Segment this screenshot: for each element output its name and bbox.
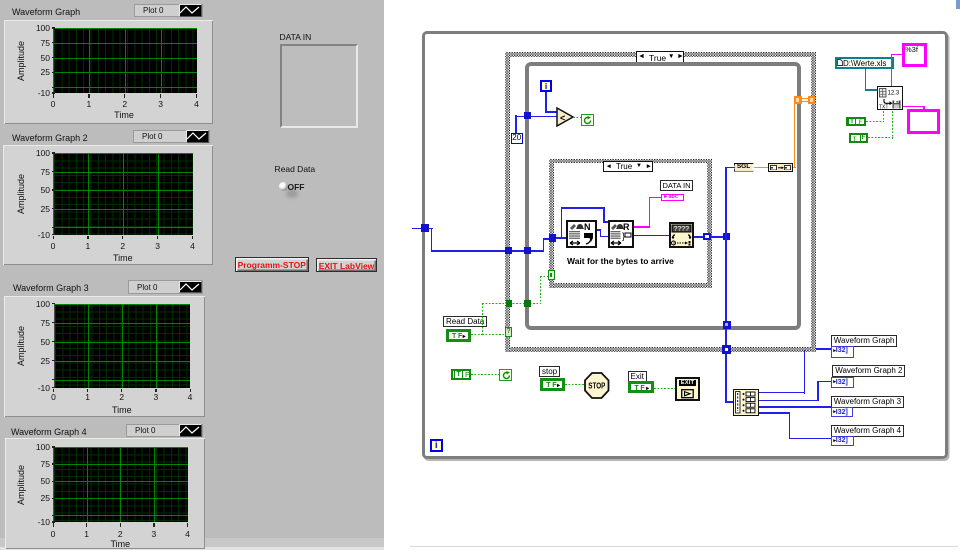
wire from 20 constant xyxy=(515,116,517,133)
numeric constant 20 xyxy=(511,133,524,145)
waveform graph 1 widget xyxy=(4,20,213,124)
front panel background xyxy=(0,0,384,550)
wire xyxy=(634,235,669,237)
wire comparator to continue terminal xyxy=(573,117,581,118)
orange wire up xyxy=(794,103,796,168)
boolean wire xyxy=(866,121,884,122)
DATA IN terminal label xyxy=(660,180,693,191)
wire junction xyxy=(723,233,730,240)
wire xyxy=(543,238,545,252)
wire to Waveform Graph terminal xyxy=(816,348,831,350)
path constant D:\Werte.xls xyxy=(835,57,895,69)
wire xyxy=(759,400,819,402)
orange wire xyxy=(802,101,809,102)
case selector True (outer case) xyxy=(636,51,685,64)
wire xyxy=(649,197,662,198)
svg-text:TXT: TXT xyxy=(879,104,888,109)
wire xyxy=(431,250,507,252)
Waveform Graph 3 terminal label xyxy=(831,396,904,408)
string wire xyxy=(903,106,925,107)
wire xyxy=(603,221,609,223)
tunnel on inner while border xyxy=(524,247,531,254)
svg-text:12.3: 12.3 xyxy=(887,90,899,96)
waveform graph 2 widget xyxy=(3,145,213,266)
VI icon: VISA Read xyxy=(608,220,634,249)
tunnel on while bottom border xyxy=(723,321,731,329)
outer while loop xyxy=(422,31,949,460)
boolean wire xyxy=(540,276,541,303)
wire up-over xyxy=(561,207,563,238)
green tunnel on case border xyxy=(506,300,513,307)
boolean wire xyxy=(565,384,585,385)
boolean wire to case selector xyxy=(482,334,506,335)
case selector True (inner case) xyxy=(603,161,653,173)
waveform graph 3 widget xyxy=(4,296,205,418)
waveform graph 4 widget xyxy=(5,438,205,549)
wire to SGL xyxy=(727,167,735,169)
inner loop iteration terminal i xyxy=(540,80,552,92)
orange tunnel on while border xyxy=(794,96,802,104)
Waveform Graph 2 I32 terminal xyxy=(831,377,854,388)
format wire down xyxy=(891,54,892,87)
array conversion node xyxy=(768,163,793,172)
Read Data boolean terminal xyxy=(446,329,471,342)
wire to Waveform Graph 2 terminal xyxy=(817,381,831,383)
wire xyxy=(431,228,433,252)
DATA IN string indicator label xyxy=(280,32,312,42)
wire xyxy=(817,381,819,402)
window fragment top-right xyxy=(956,0,960,9)
wire xyxy=(694,236,704,238)
Waveform Graph 3 I32 terminal xyxy=(831,407,854,417)
svg-text:N: N xyxy=(584,222,591,232)
svg-text:????: ???? xyxy=(673,226,689,233)
DATA IN string indicator box xyxy=(280,44,358,128)
wire xyxy=(794,103,796,105)
case selector tunnel ? xyxy=(505,327,512,337)
wire xyxy=(649,197,650,228)
svg-text:<: < xyxy=(560,113,565,123)
Index Array node xyxy=(733,389,759,416)
Waveform Graph 4 terminal label xyxy=(831,425,904,437)
stop terminal label xyxy=(539,366,560,377)
string indicator (unlabeled pink box) xyxy=(907,109,940,135)
wire xyxy=(531,250,544,252)
wire xyxy=(711,236,727,238)
wire xyxy=(600,236,609,238)
case structure True (outer) xyxy=(505,52,816,57)
svg-text:STOP: STOP xyxy=(588,382,606,391)
stop boolean terminal xyxy=(540,378,565,391)
boolean wire xyxy=(654,388,676,389)
tunnel on outer loop border xyxy=(421,224,429,232)
Waveform Graph terminal label xyxy=(831,335,898,347)
boolean constant FALSE xyxy=(849,133,869,143)
boolean wire xyxy=(471,334,483,335)
Read Data slide switch xyxy=(286,189,298,198)
wire xyxy=(543,238,550,240)
wire xyxy=(515,115,517,117)
wire into index array xyxy=(725,401,733,403)
wire xyxy=(759,392,806,394)
Read Data switch label xyxy=(275,164,316,174)
string wire xyxy=(923,106,924,110)
tunnel out of inner case xyxy=(703,233,711,241)
inner while loop xyxy=(525,62,802,331)
boolean wire xyxy=(471,374,500,375)
Waveform Graph 4 I32 terminal xyxy=(831,436,854,446)
tunnel on case bottom border xyxy=(722,345,731,354)
To SGL conversion bubble xyxy=(734,163,754,172)
green tunnel on while border xyxy=(524,300,531,307)
format wire xyxy=(891,54,902,55)
boolean constant xyxy=(451,369,471,380)
boolean wire xyxy=(868,137,893,138)
wire xyxy=(545,111,557,113)
VI icon: VISA Bytes at Serial Port xyxy=(566,220,597,249)
Read Data terminal label xyxy=(443,316,487,327)
orange wire xyxy=(793,167,796,168)
Exit terminal label xyxy=(628,371,647,382)
wire xyxy=(804,350,806,394)
tunnel 20 through while border xyxy=(524,112,531,119)
wire xyxy=(649,197,650,198)
wire xyxy=(603,207,605,222)
string constant %3f xyxy=(902,43,928,67)
boolean wire xyxy=(892,111,893,139)
path wire down xyxy=(865,69,867,91)
path wire to Write VI xyxy=(865,89,878,91)
wire xyxy=(600,229,602,237)
wire xyxy=(512,250,525,252)
wire to Waveform Graph 3 terminal xyxy=(759,406,831,408)
wire from i xyxy=(545,92,547,113)
VI icon: Write To Spreadsheet File xyxy=(877,86,903,110)
continue-if-true terminal xyxy=(499,369,512,381)
boolean constant TRUE xyxy=(846,117,866,126)
DATA IN string indicator terminal abc xyxy=(661,194,684,202)
wire into outer loop xyxy=(412,228,422,230)
wire to Waveform Graph 4 terminal xyxy=(789,438,831,440)
Exit boolean terminal xyxy=(628,381,654,393)
boolean wire xyxy=(883,111,884,123)
Waveform Graph I32 terminal xyxy=(831,346,854,358)
boolean wire xyxy=(540,276,549,277)
continue-if-true terminal (inner while) xyxy=(581,114,594,127)
tunnel on inner case border xyxy=(549,234,556,242)
wire xyxy=(759,412,791,414)
STOP sign icon xyxy=(584,372,610,399)
Waveform Graph 2 terminal label xyxy=(832,365,905,377)
wire xyxy=(789,412,791,439)
boolean wire xyxy=(482,303,541,304)
wire xyxy=(515,116,557,118)
outer loop iteration terminal i xyxy=(430,439,443,453)
Programm-STOP button xyxy=(235,257,309,272)
VI icon: String To Byte Array xyxy=(669,222,694,248)
free label: Wait for the bytes to arrive xyxy=(567,256,674,266)
wire xyxy=(561,207,605,209)
wire xyxy=(561,207,563,209)
boolean wire up xyxy=(482,303,483,335)
diagram window bottom edge xyxy=(410,546,958,547)
string wire VISA Read to DATA IN xyxy=(634,226,650,227)
EXIT LabView button xyxy=(316,258,377,273)
main array wire vertical xyxy=(725,167,727,404)
EXIT LabVIEW VI icon xyxy=(675,377,700,402)
orange wire xyxy=(802,98,809,99)
wire xyxy=(429,228,433,230)
array wire down xyxy=(725,354,727,403)
orange tunnel on case border xyxy=(808,96,815,104)
tunnel on outer case border xyxy=(505,247,512,254)
boolean tunnel on inner case border xyxy=(548,270,555,280)
case structure True (inner) xyxy=(549,159,713,164)
wire xyxy=(556,237,567,239)
wire xyxy=(597,229,602,231)
orange wire SGL to array node xyxy=(754,167,769,168)
less-than comparator xyxy=(556,107,575,127)
